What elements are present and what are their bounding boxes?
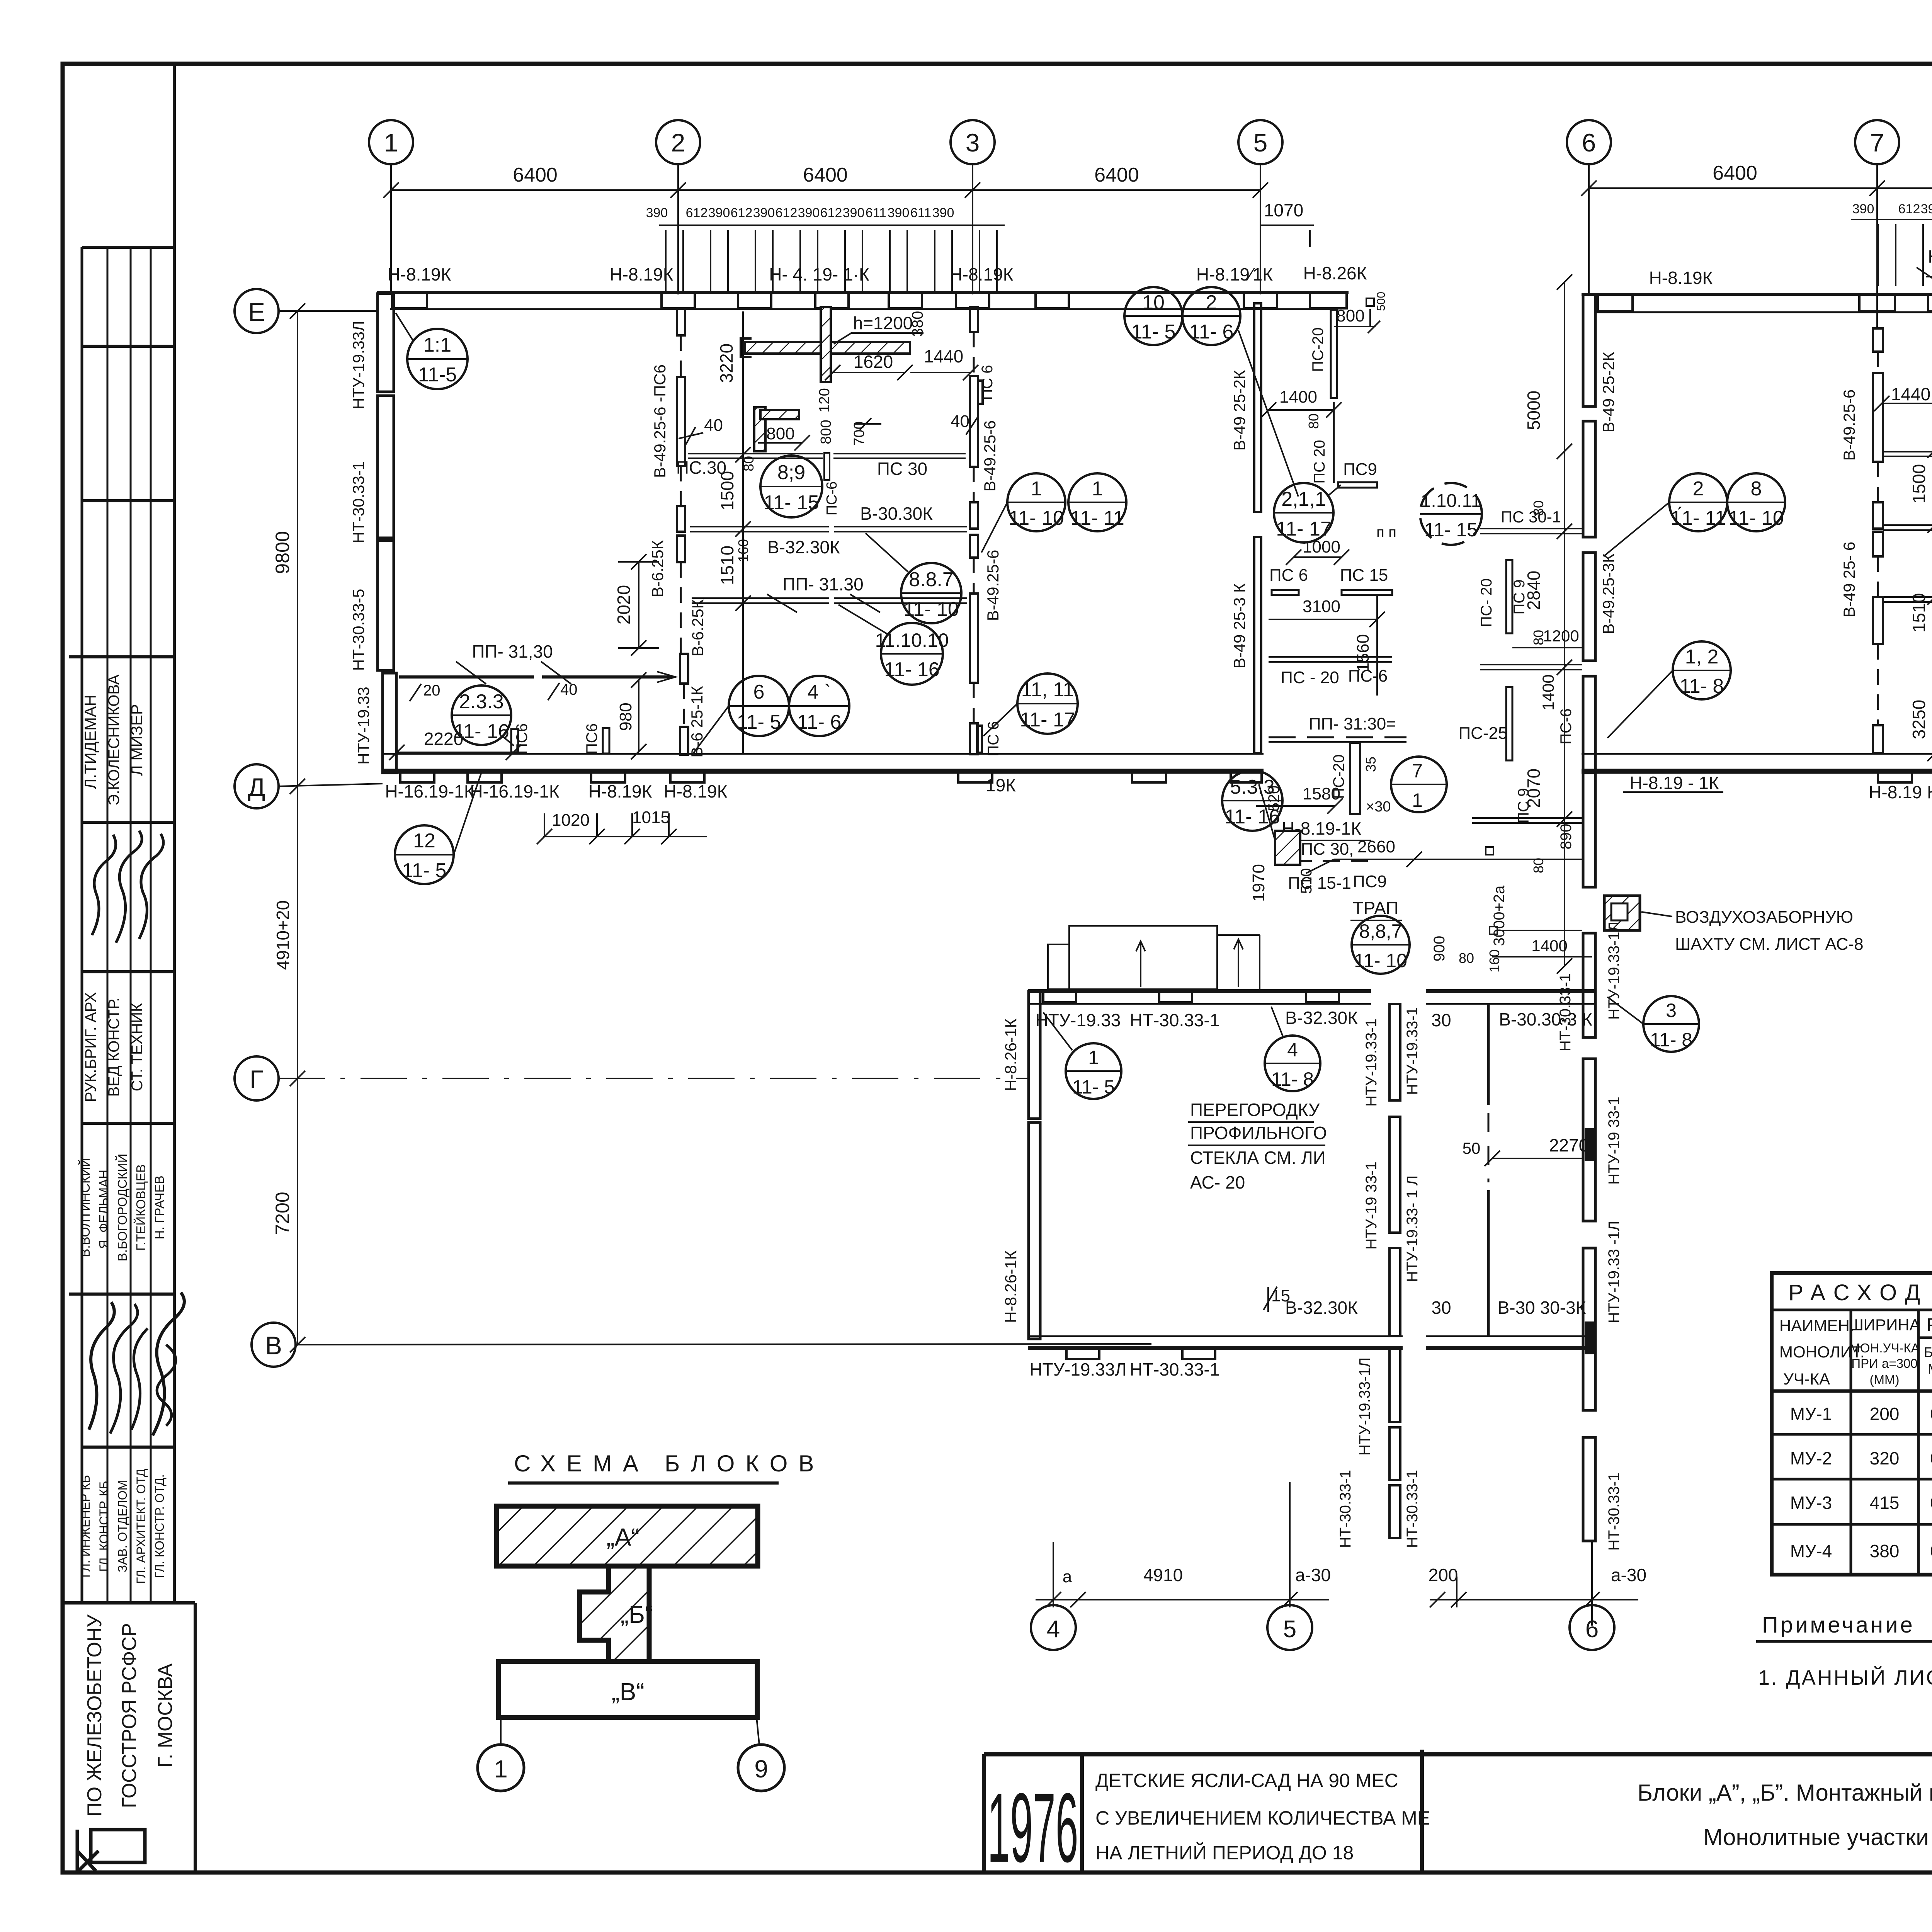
svg-text:НТУ-19 33-1: НТУ-19 33-1 [1605, 1097, 1622, 1185]
svg-text:НТУ-19.33-1: НТУ-19.33-1 [1363, 1019, 1380, 1107]
svg-text:ПС 20: ПС 20 [1311, 440, 1328, 483]
svg-text:ПО ЖЕЛЕЗОБЕТОНУ: ПО ЖЕЛЕЗОБЕТОНУ [83, 1614, 106, 1816]
svg-text:БЕТОН: БЕТОН [1924, 1344, 1932, 1360]
svg-text:ПС 30: ПС 30 [877, 459, 927, 479]
svg-text:2660: 2660 [1357, 837, 1395, 856]
air shaft hatched box block A [1275, 831, 1300, 865]
svg-text:120: 120 [816, 388, 833, 412]
svg-text:612: 612 [731, 206, 753, 220]
fraction circle 1.1/11-5 [396, 313, 468, 389]
svg-text:ПС 9: ПС 9 [1511, 580, 1528, 615]
fraction circles 6/11-5 4/11-6 [692, 676, 789, 755]
svg-text:390: 390 [1852, 202, 1874, 216]
svg-text:Н-8.19 К: Н-8.19 К [1869, 782, 1932, 802]
axis3 interior wall [970, 307, 983, 754]
svg-text:М-200: М-200 [1928, 1361, 1932, 1377]
axis leader lines [391, 164, 1260, 294]
svg-text:а: а [1063, 1567, 1072, 1586]
svg-text:4 `: 4 ` [808, 681, 831, 703]
svg-text:1: 1 [384, 128, 398, 157]
svg-text:3100: 3100 [1303, 597, 1340, 616]
svg-text:ДЕТСКИЕ ЯСЛИ-САД НА 90 МЕС: ДЕТСКИЕ ЯСЛИ-САД НА 90 МЕС [1095, 1770, 1398, 1791]
svg-text:9800: 9800 [272, 531, 293, 574]
svg-text:11- 15: 11- 15 [764, 492, 819, 514]
svg-text:2020: 2020 [614, 585, 634, 624]
svg-text:Н-8.19К: Н-8.19К [1649, 268, 1713, 288]
block B connector (hatched) [580, 1566, 649, 1662]
svg-text:1970: 1970 [1249, 864, 1268, 902]
svg-text:НТ-30.33-1: НТ-30.33-1 [1337, 1470, 1354, 1548]
svg-text:20: 20 [423, 682, 440, 699]
axis2 interior wall [677, 308, 688, 755]
fraction circles 2/11-11 8/11-10 [1604, 473, 1727, 556]
bottom wall [1582, 753, 1932, 755]
axis circle 6 [1567, 120, 1611, 164]
svg-text:1510: 1510 [1909, 593, 1929, 633]
svg-text:1, 2: 1, 2 [1685, 646, 1719, 668]
axis5 interior wall [1254, 303, 1261, 753]
air shaft block B [1604, 896, 1640, 930]
svg-text:612: 612 [776, 206, 798, 220]
svg-text:1400: 1400 [1531, 937, 1567, 955]
fraction circles 1/11-10 1/11-11 [981, 473, 1065, 553]
svg-text:8: 8 [1751, 478, 1762, 500]
svg-text:11- 5: 11- 5 [1072, 1076, 1115, 1098]
svg-text:Г.ТЕЙКОВЦЕВ: Г.ТЕЙКОВЦЕВ [134, 1164, 148, 1251]
svg-text:НАИМЕН.: НАИМЕН. [1779, 1316, 1854, 1335]
axis leaders [1589, 164, 1932, 327]
dashed fraction circle 1.10.11/11-15 [1420, 483, 1482, 545]
svg-text:В-32.30К: В-32.30К [1285, 1298, 1358, 1318]
row axis E [235, 289, 279, 333]
svg-text:В-6 25-1К: В-6 25-1К [688, 686, 706, 758]
wall PP-31.30 row [692, 597, 829, 599]
svg-text:520: 520 [1265, 786, 1282, 811]
svg-text:800: 800 [1336, 306, 1364, 325]
svg-text:1. ДАННЫЙ ЛИСТ СМ. СОВМЕ: 1. ДАННЫЙ ЛИСТ СМ. СОВМЕСТНО С ЛИСТАМИ А… [1758, 1666, 1932, 1689]
svg-text:1:1: 1:1 [423, 334, 451, 356]
svg-text:1440: 1440 [1891, 384, 1930, 404]
svg-text:800: 800 [766, 424, 794, 443]
svg-text:1020: 1020 [552, 811, 590, 830]
svg-text:6: 6 [1585, 1616, 1599, 1643]
table data [1790, 1404, 1932, 1561]
svg-text:НТ-30.33-1: НТ-30.33-1 [1605, 1473, 1622, 1551]
svg-text:Н-8.19К: Н-8.19К [588, 781, 652, 801]
fraction circles 10/11-5 2/11-6 [1124, 287, 1182, 345]
wall PS-30 row B [1883, 451, 1932, 452]
svg-text:0.50: 0.50 [1930, 1448, 1932, 1468]
svg-text:1: 1 [494, 1755, 508, 1783]
svg-text:В-49 25-3 К: В-49 25-3 К [1230, 583, 1248, 668]
svg-text:Н-8.19К: Н-8.19К [664, 781, 728, 801]
dim chain x5008 [1927, 442, 1932, 761]
svg-text:7: 7 [1412, 760, 1423, 782]
block V bar [498, 1662, 757, 1718]
svg-text:МУ-3: МУ-3 [1790, 1493, 1832, 1513]
vertical dim chain x1923 [735, 311, 751, 753]
svg-text:НТУ-19.33 -1Л: НТУ-19.33 -1Л [1605, 1221, 1622, 1323]
svg-text:1440: 1440 [924, 346, 963, 366]
signatures block 2 [89, 1302, 114, 1430]
wall PS-30 row [688, 453, 823, 454]
svg-text:В-6.25К: В-6.25К [689, 599, 707, 656]
svg-text:ВЕД КОНСТР.: ВЕД КОНСТР. [105, 998, 122, 1097]
svg-text:ЗАВ. ОТДЕЛОМ: ЗАВ. ОТДЕЛОМ [116, 1480, 129, 1573]
svg-text:НТ-30.33-1: НТ-30.33-1 [349, 461, 367, 543]
svg-text:НА ЛЕТНИЙ ПЕРИОД ДО 18: НА ЛЕТНИЙ ПЕРИОД ДО 18 [1095, 1842, 1354, 1864]
svg-text:890: 890 [1558, 824, 1575, 850]
svg-text:11- 8: 11- 8 [1650, 1029, 1692, 1051]
svg-text:ГЛ. КОНСТР. ОТД.: ГЛ. КОНСТР. ОТД. [153, 1474, 167, 1578]
svg-text:11- 10: 11- 10 [903, 598, 959, 621]
svg-text:Н-8.19К: Н-8.19К [388, 264, 451, 284]
svg-text:3220: 3220 [716, 344, 736, 383]
bottom dim 200/a-30 [1430, 1542, 1638, 1626]
svg-text:а-30: а-30 [1295, 1565, 1331, 1585]
svg-text:НТ-30.33-1: НТ-30.33-1 [1130, 1010, 1220, 1030]
middle dim chain x4049 [1557, 274, 1572, 974]
svg-text:В-32.30К: В-32.30К [1285, 1008, 1358, 1028]
svg-text:С УВЕЛИЧЕНИЕМ КОЛИЧЕСТВА МЕ: С УВЕЛИЧЕНИЕМ КОЛИЧЕСТВА МЕ [1095, 1807, 1430, 1829]
svg-text:ПС- 20: ПС- 20 [1478, 578, 1495, 628]
svg-text:ШАХТУ СМ. ЛИСТ АС-8: ШАХТУ СМ. ЛИСТ АС-8 [1675, 935, 1864, 954]
svg-text:8.8.7: 8.8.7 [909, 568, 954, 591]
svg-text:Г. МОСКВА: Г. МОСКВА [154, 1663, 177, 1768]
svg-text:612: 612 [686, 206, 708, 220]
svg-text:Н-16.19-1К: Н-16.19-1К [385, 781, 474, 801]
svg-text:80: 80 [1459, 950, 1474, 966]
svg-text:НТ-30.33-1: НТ-30.33-1 [1404, 1470, 1421, 1548]
fraction circle 8.8.7/11-10 [866, 533, 961, 623]
svg-text:В-49 25- 6: В-49 25- 6 [1840, 542, 1858, 617]
svg-text:п п: п п [1376, 524, 1396, 541]
axis5 lower wall below appendix [1389, 1004, 1400, 1538]
svg-text:12: 12 [413, 830, 435, 852]
svg-text:390: 390 [753, 206, 775, 220]
svg-text:ПС 15: ПС 15 [1340, 566, 1388, 585]
leaders to axis circles [500, 1718, 502, 1745]
svg-text:11- 16: 11- 16 [884, 658, 940, 681]
hatched corner piece [754, 407, 799, 451]
svg-text:11- 15: 11- 15 [1424, 519, 1478, 541]
svg-text:НТУ-19.33-1Л: НТУ-19.33-1Л [1605, 922, 1622, 1020]
svg-text:9: 9 [754, 1755, 768, 1783]
fraction circle 12/11-5 [395, 774, 481, 884]
svg-text:7: 7 [1870, 128, 1884, 157]
dim 1070 at axis 5 [1260, 224, 1314, 226]
svg-text:Н- 4. 19- 1·К: Н- 4. 19- 1·К [769, 264, 869, 284]
svg-text:40: 40 [704, 416, 723, 435]
fraction circle 4/11-8 appendix [1265, 1007, 1320, 1091]
svg-text:ПС9: ПС9 [1343, 460, 1377, 479]
svg-text:Я. ФЕЛЬМАН.: Я. ФЕЛЬМАН. [97, 1166, 111, 1249]
svg-text:8,8,7: 8,8,7 [1359, 920, 1402, 942]
wing inner wall [1350, 743, 1360, 814]
svg-text:ГЛ. АРХИТЕКТ. ОТД: ГЛ. АРХИТЕКТ. ОТД [134, 1469, 148, 1584]
svg-text:415: 415 [1870, 1493, 1900, 1513]
bottom org cell [194, 1603, 197, 1872]
row axis D [235, 764, 279, 808]
svg-text:30: 30 [1431, 1010, 1451, 1030]
dim 2020 [618, 554, 659, 656]
svg-text:11-5: 11-5 [418, 364, 457, 386]
svg-text:11- 6: 11- 6 [1189, 321, 1234, 343]
svg-text:В-49.25-6: В-49.25-6 [984, 550, 1002, 621]
svg-text:980: 980 [616, 702, 635, 731]
svg-text:СХЕМА: СХЕМА [514, 1451, 649, 1476]
wing: PS-20 wall [1331, 310, 1337, 398]
svg-text:6: 6 [1582, 128, 1596, 157]
svg-text:РУК.БРИГ. АРХ: РУК.БРИГ. АРХ [82, 992, 99, 1102]
svg-text:СТЕКЛА СМ. ЛИ: СТЕКЛА СМ. ЛИ [1190, 1148, 1326, 1168]
svg-text:6400: 6400 [1713, 162, 1757, 184]
svg-text:ПС 30,: ПС 30, [1301, 840, 1354, 859]
top wall panel joint tabs [392, 294, 1347, 308]
KB logo [91, 1830, 145, 1862]
svg-text:Н-16.19-1К: Н-16.19-1К [470, 781, 560, 801]
svg-text:ПС6: ПС6 [583, 723, 600, 754]
svg-text:„А“: „А“ [606, 1523, 639, 1551]
svg-text:(ММ): (ММ) [1870, 1372, 1900, 1387]
svg-text:7200: 7200 [272, 1192, 293, 1235]
svg-text:6400: 6400 [1094, 164, 1139, 186]
svg-text:390: 390 [1921, 202, 1932, 216]
svg-text:611: 611 [910, 206, 931, 220]
fraction circle 2,1,1/11-17 [1274, 483, 1341, 543]
svg-text:В-49.25-6: В-49.25-6 [981, 420, 999, 492]
svg-text:РАСХОД МАТЕРИАЛА НА 1 УЧ: РАСХОД МАТЕРИАЛА НА 1 УЧ-К [1927, 1315, 1932, 1335]
svg-text:В-49.25-3К: В-49.25-3К [1599, 553, 1617, 634]
svg-text:ПС-6: ПС-6 [1558, 708, 1575, 744]
svg-text:390: 390 [646, 206, 668, 220]
svg-text:В-30.30-3 К: В-30.30-3 К [1499, 1009, 1592, 1029]
left vertical dimension line [290, 303, 305, 1352]
svg-text:11- 10: 11- 10 [1728, 507, 1784, 529]
svg-text:2: 2 [1206, 291, 1217, 314]
fraction circle 8,8,7/11-10 lower [1352, 916, 1410, 974]
axis circle 7 [1855, 120, 1899, 164]
svg-text:2,1,1: 2,1,1 [1281, 488, 1326, 510]
panel labels above top wall [388, 263, 1367, 284]
svg-text:2270: 2270 [1549, 1135, 1588, 1155]
svg-text:МОН.УЧ-КА: МОН.УЧ-КА [1849, 1341, 1919, 1355]
svg-text:МУ-4: МУ-4 [1790, 1541, 1832, 1561]
svg-text:×30: ×30 [1366, 799, 1391, 815]
svg-text:„Б“: „Б“ [621, 1600, 653, 1628]
svg-text:1580: 1580 [1303, 784, 1340, 803]
svg-text:80: 80 [1306, 413, 1321, 429]
axis circle 2 [656, 120, 700, 164]
side stamp row lines [82, 246, 174, 249]
svg-text:Примечание: Примечание [1762, 1612, 1915, 1638]
wall B-32/30 row B [1883, 524, 1932, 526]
svg-text:В-6.25К: В-6.25К [648, 540, 667, 597]
bottom wall of block A [383, 753, 1264, 755]
fraction circle 11,11/11-17 [983, 673, 1078, 736]
small panel dim row [1851, 219, 1932, 286]
main dim 6400 [1581, 180, 1932, 196]
svg-text:ПС-25: ПС-25 [1459, 724, 1508, 743]
svg-text:Н-8.26-1К: Н-8.26-1К [1002, 1250, 1020, 1323]
svg-text:6400: 6400 [803, 164, 848, 186]
svg-text:ВОЗДУХОЗАБОРНУЮ: ВОЗДУХОЗАБОРНУЮ [1675, 908, 1853, 927]
fraction circle 3/11-8 [1607, 996, 1699, 1052]
svg-text:В: В [265, 1331, 282, 1360]
svg-text:Г: Г [250, 1065, 264, 1094]
svg-text:1.10.11: 1.10.11 [1421, 491, 1481, 511]
svg-text:900: 900 [1431, 936, 1448, 962]
main dimension line 6400s [383, 182, 1268, 198]
small panel dimension row 390/612 [659, 225, 1005, 292]
svg-text:4910: 4910 [1143, 1565, 1183, 1585]
axis circle 4 bottom [1031, 1605, 1076, 1650]
svg-text:ПРОФИЛЬНОГО: ПРОФИЛЬНОГО [1190, 1123, 1327, 1143]
svg-text:1000: 1000 [1303, 537, 1340, 556]
svg-text:В-30 30-3К: В-30 30-3К [1498, 1298, 1586, 1318]
svg-text:НТУ-19.33: НТУ-19.33 [354, 687, 372, 765]
side stamp column lines [81, 247, 83, 1603]
svg-text:В-49 25-2К: В-49 25-2К [1599, 352, 1617, 432]
svg-text:1070: 1070 [1264, 200, 1303, 220]
svg-text:800: 800 [818, 420, 834, 444]
svg-text:1: 1 [1092, 478, 1103, 500]
svg-text:Н-8.19 - 1К: Н-8.19 - 1К [1629, 773, 1719, 793]
fraction circle 8;9/11-15 [760, 456, 822, 517]
walls left of axis 6 [1480, 528, 1582, 529]
svg-text:3000+2а: 3000+2а [1491, 885, 1508, 946]
axis circle 5 [1238, 120, 1282, 164]
svg-text:10: 10 [1142, 291, 1165, 314]
svg-text:1400: 1400 [1279, 388, 1317, 406]
bottom dim line 1020/1015 [537, 813, 707, 844]
signatures block 1 [92, 835, 116, 935]
top wall [1582, 293, 1932, 296]
svg-text:4910+20: 4910+20 [273, 900, 293, 970]
svg-text:11- 8: 11- 8 [1271, 1068, 1314, 1090]
svg-text:НТ-30.33-1: НТ-30.33-1 [1130, 1359, 1220, 1379]
svg-text:Монолитные участки: Монолитные участки [1703, 1824, 1929, 1850]
svg-text:„В“: „В“ [611, 1678, 644, 1706]
svg-text:В-30.30К: В-30.30К [860, 503, 933, 524]
svg-text:5000: 5000 [1524, 391, 1544, 430]
svg-text:11- 8: 11- 8 [1680, 675, 1724, 697]
svg-text:1976: 1976 [988, 1773, 1078, 1883]
svg-text:390: 390 [708, 206, 730, 220]
svg-text:ПС.30: ПС.30 [676, 457, 726, 478]
svg-text:Д: Д [248, 773, 265, 801]
wall B-32.30K / B-30.30K row [690, 526, 829, 527]
svg-text:ПС-20: ПС-20 [1310, 327, 1327, 372]
svg-text:ГОССТРОЯ РСФСР: ГОССТРОЯ РСФСР [118, 1623, 141, 1808]
svg-text:h=1200: h=1200 [853, 313, 913, 333]
svg-text:ГЛ. ИНЖЕНЕР КБ: ГЛ. ИНЖЕНЕР КБ [78, 1475, 92, 1578]
axis circle 1 [369, 120, 413, 164]
svg-text:ПС - 20: ПС - 20 [1281, 668, 1339, 687]
svg-text:НТУ-19.33-1Л: НТУ-19.33-1Л [1356, 1357, 1373, 1456]
svg-text:Н-8.26К: Н-8.26К [1303, 263, 1367, 283]
wall PP row B [1883, 596, 1932, 598]
dim 980 [638, 680, 639, 752]
axis7 interior wall [1873, 328, 1883, 753]
svg-text:612: 612 [1898, 202, 1920, 216]
svg-text:ПС 9: ПС 9 [1515, 788, 1532, 823]
svg-text:5: 5 [1283, 1616, 1296, 1643]
svg-text:Э.КОЛЕСНИКОВА: Э.КОЛЕСНИКОВА [105, 674, 122, 805]
svg-text:30: 30 [1431, 1298, 1451, 1318]
svg-text:11- 5: 11- 5 [1131, 321, 1176, 343]
svg-text:Н-8.26-1К: Н-8.26-1К [1002, 1019, 1020, 1091]
svg-text:ПС-6: ПС-6 [824, 481, 840, 516]
svg-text:3: 3 [1666, 1000, 1677, 1021]
svg-text:НТУ-19 33-1: НТУ-19 33-1 [1363, 1162, 1380, 1250]
svg-text:2.3.3: 2.3.3 [459, 690, 504, 713]
svg-text:35: 35 [1363, 757, 1379, 772]
svg-text:В.БОГОРОДСКИЙ: В.БОГОРОДСКИЙ [115, 1154, 129, 1262]
appendix top wall (row G) [1028, 989, 1371, 993]
svg-text:320: 320 [1870, 1448, 1900, 1468]
svg-text:19К: 19К [986, 775, 1016, 795]
svg-text:11- 10: 11- 10 [1009, 507, 1064, 529]
svg-text:2220: 2220 [424, 729, 463, 749]
materials table grid [1772, 1273, 1932, 1575]
svg-text:Л.ТИДЕМАН: Л.ТИДЕМАН [81, 695, 99, 789]
svg-text:БЛОКОВ: БЛОКОВ [665, 1451, 825, 1476]
svg-text:1500: 1500 [1909, 464, 1929, 503]
svg-text:ПС 15-1: ПС 15-1 [1288, 874, 1351, 893]
lower partition PP-31.30 left [399, 675, 534, 679]
svg-text:3250: 3250 [1909, 700, 1929, 739]
fraction circle 5.3.3/11-16 [1222, 770, 1282, 831]
svg-text:612: 612 [820, 206, 842, 220]
svg-text:Н-8.19⁄1К: Н-8.19⁄1К [1196, 264, 1273, 284]
panel labels [1649, 247, 1932, 288]
svg-text:1015: 1015 [632, 808, 670, 827]
svg-text:11- 5: 11- 5 [737, 711, 781, 733]
svg-text:6: 6 [753, 681, 765, 703]
row axis V [252, 1323, 296, 1367]
svg-text:МУ-1: МУ-1 [1790, 1404, 1832, 1424]
svg-text:380: 380 [909, 311, 926, 337]
fraction circle 1,2/11-8 [1607, 641, 1731, 738]
axis circle 5 bottom [1267, 1605, 1312, 1650]
svg-text:НТУ-19.33- 1 Л: НТУ-19.33- 1 Л [1404, 1175, 1421, 1282]
svg-text:5: 5 [1253, 128, 1268, 157]
axis6 wall below [1583, 771, 1595, 1541]
svg-text:ПРИ а=300: ПРИ а=300 [1851, 1356, 1917, 1371]
svg-text:В-49.25-6 -ПС6: В-49.25-6 -ПС6 [651, 364, 669, 478]
wall PS-20/PS-6 row [1269, 656, 1392, 658]
axis circle 3 [951, 120, 995, 164]
svg-text:380: 380 [1870, 1541, 1900, 1561]
dashed wall + labels [1294, 860, 1368, 862]
svg-text:ПС 6: ПС 6 [979, 365, 996, 400]
svg-text:НТ-30.33-5: НТ-30.33-5 [349, 589, 367, 671]
svg-text:0.32: 0.32 [1930, 1404, 1932, 1424]
svg-text:Н. ГРАЧЕВ: Н. ГРАЧЕВ [152, 1175, 167, 1239]
svg-text:ПС 30-1: ПС 30-1 [1501, 508, 1561, 526]
svg-text:200: 200 [1870, 1404, 1900, 1424]
svg-text:0.65: 0.65 [1930, 1493, 1932, 1513]
svg-text:НТУ-19.33Л: НТУ-19.33Л [349, 321, 367, 409]
svg-text:Н-8.19К: Н-8.19К [950, 264, 1014, 284]
svg-text:2: 2 [671, 128, 685, 157]
svg-text:Н-8.19К: Н-8.19К [610, 264, 673, 284]
svg-text:160: 160 [1486, 949, 1502, 973]
svg-text:ГЛ. КОНСТР. КБ: ГЛ. КОНСТР. КБ [97, 1481, 111, 1572]
fraction circle 11.10.10/11-16 [838, 605, 949, 685]
svg-text:В.ВОЛТИНСКИЙ: В.ВОЛТИНСКИЙ [78, 1158, 92, 1257]
